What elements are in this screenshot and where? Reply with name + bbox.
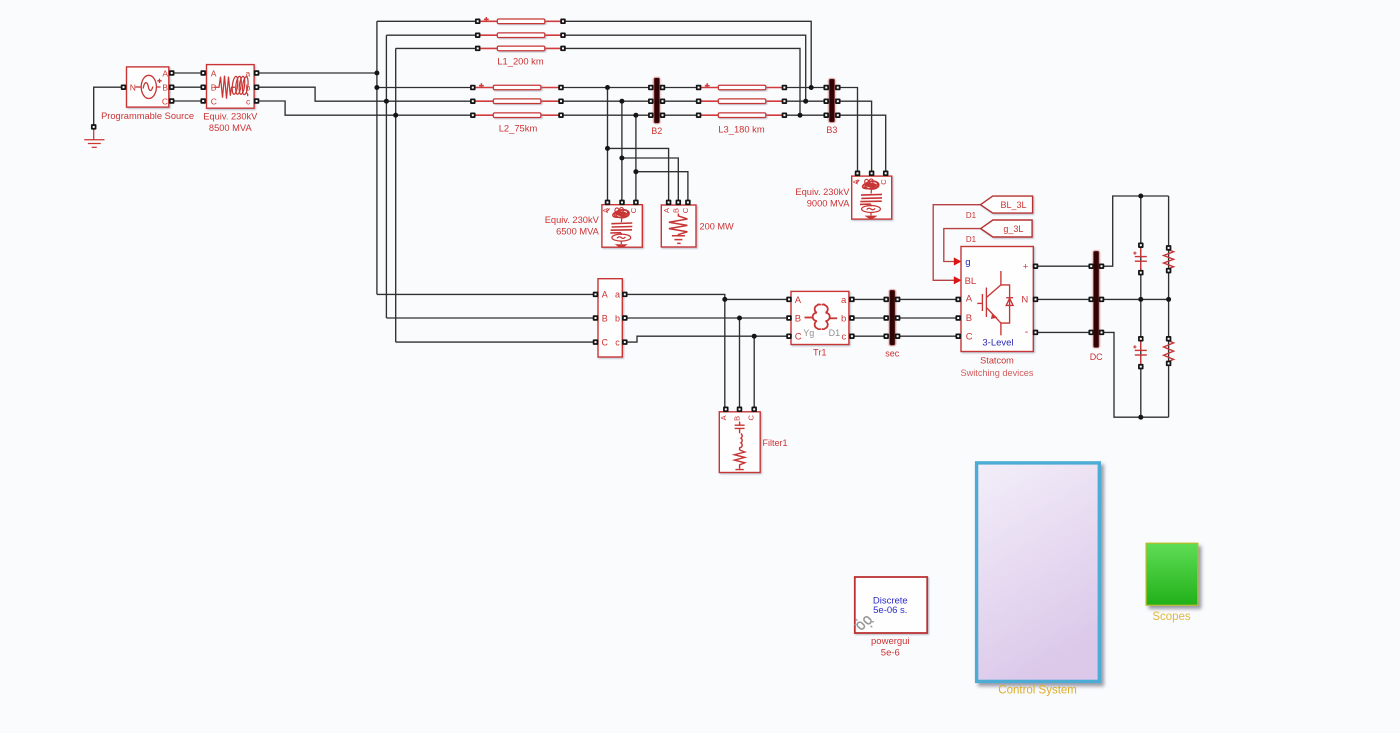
svg-text:B: B (671, 208, 680, 213)
svg-text:A: A (162, 68, 168, 78)
svg-text:C: C (162, 96, 168, 106)
svg-text:C: C (681, 207, 690, 213)
svg-text:3-Level: 3-Level (982, 337, 1013, 348)
svg-text:Yg: Yg (803, 328, 814, 338)
svg-text:Statcom: Statcom (980, 356, 1014, 366)
svg-text:g_3L: g_3L (1003, 224, 1023, 234)
svg-text:C: C (629, 207, 638, 213)
svg-text:8500 MVA: 8500 MVA (209, 123, 253, 133)
svg-text:A: A (795, 295, 802, 306)
svg-text:c: c (842, 332, 847, 343)
svg-text:B3: B3 (826, 125, 837, 135)
svg-text:Equiv. 230kV: Equiv. 230kV (203, 111, 258, 121)
svg-text:C: C (211, 97, 217, 107)
svg-text:B: B (966, 313, 972, 324)
svg-text:c: c (246, 97, 251, 107)
svg-text:Switching devices: Switching devices (960, 368, 1033, 378)
svg-text:D1: D1 (829, 328, 841, 338)
svg-text:B: B (733, 416, 742, 421)
svg-text:Programmable Source: Programmable Source (101, 111, 194, 121)
svg-text:b: b (841, 313, 846, 324)
svg-text:N: N (130, 82, 136, 92)
svg-text:5e-06 s.: 5e-06 s. (873, 605, 907, 616)
svg-text:L1_200 km: L1_200 km (497, 56, 544, 67)
svg-text:D1: D1 (966, 211, 977, 220)
svg-text:g: g (965, 257, 970, 268)
svg-text:A: A (602, 290, 608, 300)
svg-text:L3_180 km: L3_180 km (718, 124, 765, 135)
svg-text:A: A (211, 69, 217, 79)
svg-text:a: a (841, 295, 847, 306)
svg-text:200 MW: 200 MW (700, 221, 735, 231)
svg-text:c: c (615, 337, 620, 347)
svg-text:C: C (602, 337, 609, 347)
svg-text:C: C (966, 331, 973, 342)
svg-text:D1: D1 (966, 235, 977, 244)
svg-text:B: B (162, 83, 168, 93)
svg-text:Scopes: Scopes (1152, 611, 1191, 623)
svg-text:b: b (615, 313, 620, 323)
svg-text:-: - (1025, 326, 1029, 338)
svg-text:C: C (746, 415, 755, 421)
svg-text:B2: B2 (651, 126, 662, 136)
svg-text:Equiv. 230kV: Equiv. 230kV (795, 187, 850, 197)
svg-text:C: C (879, 179, 888, 185)
svg-text:L2_75km: L2_75km (499, 123, 538, 134)
svg-text:N: N (1021, 295, 1028, 306)
svg-text:a: a (615, 290, 620, 300)
svg-text:A: A (662, 208, 671, 213)
svg-text:B: B (795, 313, 801, 324)
svg-text:powergui: powergui (871, 636, 910, 647)
svg-text:A: A (966, 294, 973, 305)
svg-text:+: + (1023, 261, 1029, 272)
svg-text:C: C (795, 332, 802, 343)
svg-text:Filter1: Filter1 (763, 438, 788, 448)
svg-text:BL_3L: BL_3L (1001, 200, 1027, 210)
svg-text:BL: BL (965, 276, 977, 287)
svg-text:6500 MVA: 6500 MVA (556, 226, 600, 236)
svg-text:sec: sec (885, 348, 900, 358)
svg-text:Control System: Control System (998, 684, 1077, 696)
svg-text:5e-6: 5e-6 (881, 648, 900, 659)
svg-text:Tr1: Tr1 (813, 347, 827, 357)
svg-text:Equiv. 230kV: Equiv. 230kV (545, 215, 600, 225)
svg-text:DC: DC (1090, 352, 1103, 362)
svg-text:A: A (719, 415, 728, 420)
svg-text:9000 MVA: 9000 MVA (807, 199, 851, 209)
svg-text:B: B (602, 313, 608, 323)
